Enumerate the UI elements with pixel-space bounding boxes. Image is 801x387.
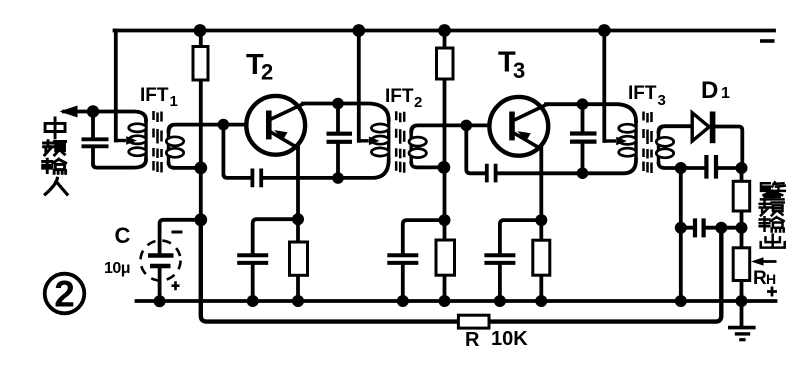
- svg-text:2: 2: [54, 274, 75, 315]
- svg-text:D: D: [701, 77, 718, 104]
- svg-text:IFT: IFT: [628, 83, 657, 104]
- svg-text:3: 3: [513, 58, 525, 83]
- svg-text:C: C: [115, 223, 131, 248]
- svg-text:2: 2: [414, 94, 422, 111]
- svg-text:R: R: [465, 329, 480, 351]
- svg-text:1: 1: [721, 85, 730, 102]
- svg-text:H: H: [766, 271, 776, 287]
- svg-text:R: R: [753, 268, 767, 289]
- svg-text:2: 2: [261, 60, 273, 85]
- svg-text:10K: 10K: [491, 328, 528, 350]
- svg-text:1: 1: [170, 93, 178, 110]
- svg-text:IFT: IFT: [140, 85, 169, 106]
- svg-text:10μ: 10μ: [104, 260, 130, 277]
- svg-text:3: 3: [658, 92, 666, 109]
- svg-text:IFT: IFT: [385, 86, 414, 107]
